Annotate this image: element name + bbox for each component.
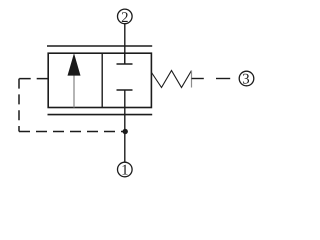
junction node: [123, 129, 128, 134]
svg-text:1: 1: [121, 163, 128, 179]
pilot dashed line, bottom horizontal leg to junction: [19, 131, 125, 133]
svg-text:3: 3: [242, 72, 249, 88]
cartridge sleeve bottom line: [48, 114, 153, 116]
dashed pilot wire to port 3: [216, 78, 230, 80]
spring: [152, 71, 192, 88]
cartridge sleeve top line: [47, 45, 152, 47]
arrow head: [68, 53, 81, 75]
pilot dashed line, vertical leg: [18, 79, 20, 132]
port 2: [118, 9, 133, 26]
envelope divider: [101, 53, 103, 107]
port 3: [239, 71, 254, 87]
wire valve bottom to junction: [124, 108, 126, 132]
blocked port top T (right compartment): [117, 53, 133, 64]
spring end bar (gray): [191, 71, 193, 88]
wire port 2 to valve top blocked port: [124, 24, 126, 64]
valve envelope box: [48, 53, 151, 107]
svg-text:2: 2: [121, 10, 128, 26]
wire spring to pilot dash: [192, 78, 204, 80]
wire junction to port 1: [124, 132, 126, 163]
pilot dashed line, horizontal leg from valve left side: [19, 78, 48, 80]
blocked port bottom T (right compartment): [117, 90, 133, 108]
port 1: [118, 162, 133, 178]
arrow flow path (left compartment) shaft: [73, 72, 75, 108]
